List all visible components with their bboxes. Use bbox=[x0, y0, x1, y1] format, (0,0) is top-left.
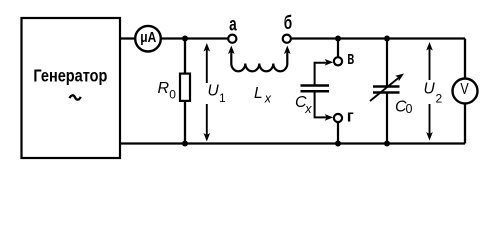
capacitor Cx with arrowed leads bbox=[295, 59, 333, 121]
svg-text:Генератор: Генератор bbox=[33, 66, 107, 86]
svg-text:L: L bbox=[254, 85, 263, 102]
junction: top of R0 branch bbox=[182, 36, 188, 42]
node b (б) bbox=[283, 13, 293, 43]
wire: top rail to node v bbox=[337, 39, 339, 58]
wire: microammeter to node a (top rail) bbox=[161, 37, 229, 39]
svg-text:U: U bbox=[208, 82, 220, 99]
wire: node g to bottom rail bbox=[337, 123, 339, 144]
svg-text:а: а bbox=[229, 15, 237, 36]
wire: top rail corner down to voltmeter bbox=[464, 39, 466, 80]
svg-text:г: г bbox=[347, 106, 354, 125]
wire: R0 branch top bbox=[184, 39, 186, 74]
wire: voltmeter down to bottom rail bbox=[464, 103, 466, 144]
resistor R0 bbox=[158, 74, 191, 102]
capacitor C0 (variable) bbox=[370, 39, 413, 144]
svg-text:б: б bbox=[284, 13, 292, 34]
svg-text:x: x bbox=[264, 91, 272, 105]
junction: bottom of C0 branch bbox=[384, 141, 390, 147]
junction: bottom of R0 branch bbox=[182, 141, 188, 147]
voltage U2 (double arrow) bbox=[424, 42, 443, 141]
svg-text:x: x bbox=[304, 102, 312, 116]
voltage U1 (double arrow) bbox=[204, 43, 227, 142]
wire: generator to microammeter (top rail) bbox=[120, 37, 136, 39]
voltmeter PV1 (V) bbox=[453, 79, 478, 104]
wire: R0 branch bottom bbox=[184, 101, 186, 144]
svg-text:0: 0 bbox=[169, 87, 176, 101]
junction: top of Cx branch bbox=[335, 36, 341, 42]
svg-text:V: V bbox=[460, 81, 469, 98]
wire: bottom rail bbox=[120, 142, 465, 144]
node g (г) bbox=[334, 106, 354, 125]
svg-text:1: 1 bbox=[219, 91, 226, 105]
node v (в) bbox=[334, 48, 354, 68]
svg-text:0: 0 bbox=[406, 102, 413, 116]
wire: node b to top-right corner (top rail) bbox=[291, 37, 465, 39]
junction: bottom of Cx branch bbox=[335, 141, 341, 147]
svg-text:R: R bbox=[158, 80, 170, 97]
svg-text:μА: μА bbox=[140, 30, 156, 46]
svg-text:U: U bbox=[424, 80, 436, 97]
inductor Lx bbox=[228, 46, 291, 106]
generator G box bbox=[22, 18, 121, 158]
microammeter PA1 (µA) bbox=[135, 26, 161, 52]
junction: top of C0 branch bbox=[384, 36, 390, 42]
svg-text:2: 2 bbox=[436, 92, 443, 106]
node a (а) bbox=[228, 15, 237, 43]
svg-text:в: в bbox=[347, 48, 354, 68]
